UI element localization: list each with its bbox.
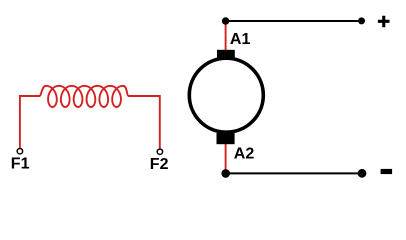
svg-text:A2: A2 bbox=[234, 146, 255, 163]
terminal minus bbox=[381, 169, 393, 174]
wire field left (F1 up and across to coil) bbox=[20, 96, 40, 148]
node negative end bbox=[358, 169, 367, 178]
wire positive rail bbox=[226, 20, 362, 22]
terminal plus bbox=[378, 16, 390, 28]
wire negative rail bbox=[226, 172, 362, 174]
wire field right (coil across and down to F2) bbox=[129, 96, 160, 148]
svg-text:A1: A1 bbox=[230, 31, 251, 48]
node junction bottom bbox=[221, 169, 230, 178]
wire armature top (red, rail to brush) bbox=[225, 21, 227, 52]
node junction top bbox=[222, 17, 229, 24]
motor armature M bbox=[189, 58, 263, 132]
wire armature bottom (red, brush to rail) bbox=[225, 142, 227, 173]
svg-text:F2: F2 bbox=[150, 156, 169, 173]
terminal F1 bbox=[17, 149, 22, 154]
node positive end bbox=[358, 17, 365, 24]
brush A1 bbox=[217, 50, 235, 60]
svg-text:F1: F1 bbox=[11, 156, 30, 173]
brush A2 bbox=[217, 133, 235, 144]
inductor field coil bbox=[39, 86, 129, 107]
terminal F2 bbox=[157, 149, 162, 154]
